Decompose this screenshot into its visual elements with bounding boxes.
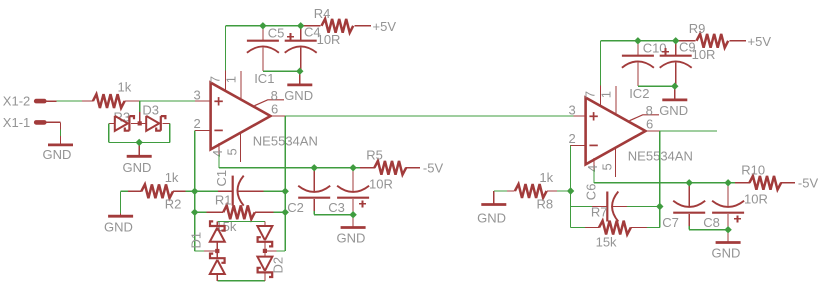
op-amp IC1 minus input mark: [214, 129, 222, 131]
junction V- C8: [724, 179, 731, 186]
polarity + (C3): [359, 201, 366, 208]
svg-text:X1-1: X1-1: [3, 115, 30, 130]
value 10R (R5): [369, 176, 393, 191]
svg-text:GND: GND: [104, 220, 133, 235]
capacitor C1: [233, 176, 244, 206]
resistor R5: [374, 161, 406, 175]
polarity + (C4): [287, 33, 294, 40]
svg-text:3: 3: [194, 88, 201, 103]
capacitor C6: [607, 192, 618, 222]
svg-text:1k: 1k: [165, 170, 179, 185]
svg-text:R4: R4: [314, 6, 331, 21]
label C4: [304, 25, 321, 40]
wire R9 lead left: [676, 40, 696, 42]
svg-text:5: 5: [225, 148, 240, 155]
svg-text:R7: R7: [591, 205, 608, 220]
wire D3 right lead: [162, 122, 169, 124]
label R10: [741, 162, 765, 177]
pin 2 lead IC2: [570, 144, 586, 146]
wire row B2 left seg: [571, 227, 600, 229]
junction row B left: [191, 209, 198, 216]
label C7: [662, 215, 679, 230]
label D2: [271, 257, 286, 274]
value 10R (R9): [692, 47, 716, 62]
value 10R (R10): [744, 191, 768, 206]
wire R5 lead right: [405, 167, 420, 169]
svg-text:D3: D3: [142, 102, 159, 117]
wire C2 top lead: [313, 168, 315, 191]
svg-text:C6: C6: [584, 184, 599, 201]
wire X1-1 to ground: [60, 122, 62, 144]
pin 5 lead IC1: [240, 132, 242, 162]
svg-text:C8: C8: [703, 215, 720, 230]
value 1k (R3): [118, 80, 132, 95]
resistor R2: [141, 184, 173, 198]
capacitor C9: [660, 56, 692, 68]
wire left wall (pin2 riser): [194, 130, 196, 251]
wire C4 bottom lead: [300, 48, 302, 72]
svg-text:R1: R1: [215, 193, 232, 208]
wire C2 bottom lead: [313, 199, 315, 215]
resistor R8: [515, 184, 547, 198]
wire right wall (output riser): [284, 116, 286, 251]
value 1k (R8): [539, 170, 553, 185]
svg-text:+5V: +5V: [373, 19, 397, 34]
pin 6 lead IC1: [271, 115, 286, 117]
wire C10 bottom lead: [637, 63, 639, 87]
wire D1 top lead: [216, 222, 218, 226]
junction rail C4: [297, 22, 304, 29]
junction row A2 right: [656, 203, 663, 210]
junction D3 middle: [138, 121, 142, 125]
wire row B right seg: [255, 211, 285, 213]
svg-text:C10: C10: [643, 40, 667, 55]
svg-text:-5V: -5V: [423, 160, 444, 175]
wire D2 mid lead: [264, 242, 266, 257]
svg-text:GND: GND: [477, 211, 506, 226]
pin number 2 IC1: [194, 116, 201, 131]
label R8: [537, 197, 554, 212]
pin number 1 IC1: [224, 76, 239, 83]
value NE5534AN IC1: [253, 134, 318, 149]
wire D2 bottom lead: [264, 273, 266, 281]
net name GND (pin 8 IC1): [284, 88, 313, 103]
wire +5V rail IC1: [263, 25, 301, 27]
capacitor C8: [712, 201, 744, 213]
junction D2 middle: [263, 249, 267, 253]
pin number 6 IC1: [271, 102, 278, 117]
ground GND (X1-1): [43, 145, 73, 162]
junction V- C3: [349, 164, 356, 171]
label C10: [643, 40, 667, 55]
label C5: [268, 25, 285, 40]
polarity + (C8): [734, 216, 741, 223]
label R5: [366, 147, 383, 162]
pin 8 lead IC2: [630, 115, 660, 121]
wire C9 top lead: [675, 41, 677, 56]
junction R8 wall: [567, 187, 574, 194]
svg-text:1k: 1k: [118, 80, 132, 95]
svg-text:3: 3: [569, 103, 576, 118]
svg-text:R10: R10: [741, 162, 765, 177]
wire row A2 left seg: [571, 206, 608, 208]
junction row A left: [191, 188, 198, 195]
value 10R (R4): [317, 32, 341, 47]
svg-text:IC2: IC2: [629, 86, 649, 101]
wire C4 top lead: [300, 26, 302, 41]
resistor R10: [749, 176, 781, 190]
label R9: [689, 21, 706, 36]
pin 4 lead IC1: [218, 143, 220, 155]
ground GND (bypass IC2): [711, 230, 740, 261]
net name GND (pin 8 IC2): [659, 103, 688, 118]
pin number 8 IC1: [271, 88, 278, 103]
connector pad X1-1: [36, 120, 60, 125]
pin number 3 IC2: [569, 103, 576, 118]
pin 7 lead IC2: [600, 86, 602, 106]
junction decoupling gnd IC1: [296, 68, 303, 75]
pin number 7 IC1: [208, 76, 223, 83]
svg-text:2: 2: [569, 131, 576, 146]
svg-text:+5V: +5V: [748, 34, 772, 49]
wire X1-2 to R3: [57, 100, 83, 102]
wire V- rail IC2: [689, 182, 735, 184]
label D3: [142, 102, 159, 117]
svg-text:-5V: -5V: [798, 175, 819, 190]
wire D2 top lead: [264, 222, 266, 227]
junction D3 gnd: [136, 139, 143, 146]
svg-text:2: 2: [194, 116, 201, 131]
wire D3 left lead: [109, 122, 115, 124]
svg-text:1: 1: [599, 91, 614, 98]
svg-text:1: 1: [224, 76, 239, 83]
wire R2 right: [173, 190, 195, 192]
label IC1: [254, 71, 274, 86]
wire +5V rail riser IC2: [601, 41, 638, 86]
pin number 1 IC2: [599, 91, 614, 98]
pin number 4 IC1: [210, 150, 225, 157]
capacitor C2: [298, 186, 330, 198]
svg-text:10R: 10R: [692, 47, 716, 62]
svg-text:15k: 15k: [596, 235, 617, 250]
svg-text:C3: C3: [328, 200, 345, 215]
pin number 7 IC2: [583, 91, 598, 98]
resistor R1: [223, 205, 255, 219]
junction rail C5: [259, 22, 266, 29]
label C9: [679, 40, 696, 55]
supply +5V label IC1: [373, 19, 397, 34]
wire D2 tap: [265, 250, 285, 252]
wire row A2 right seg: [612, 206, 660, 208]
svg-text:6: 6: [271, 102, 278, 117]
wire IC1 output to IC2 input: [285, 115, 573, 117]
wire C10 top lead: [637, 41, 639, 56]
svg-text:7: 7: [208, 76, 223, 83]
wire +5V rail riser IC1: [226, 26, 263, 71]
svg-text:6: 6: [646, 117, 653, 132]
wire C5 bottom lead: [262, 48, 264, 72]
svg-text:D2: D2: [271, 257, 286, 274]
label C6: [584, 184, 599, 201]
op-amp IC2 plus input mark: [589, 112, 597, 120]
resistor R4: [322, 19, 354, 33]
pin 4 lead IC2: [593, 158, 595, 170]
label R3: [114, 109, 131, 124]
label C2: [287, 200, 304, 215]
op-amp IC1 plus input mark: [214, 97, 222, 105]
value 15k (R7): [596, 235, 617, 250]
capacitor C10: [622, 56, 654, 68]
wire C7 bottom lead: [688, 214, 690, 230]
wire D3 mid lead: [131, 122, 146, 124]
wire C8 top lead: [727, 183, 729, 206]
svg-text:R2: R2: [165, 197, 182, 212]
label C8: [703, 215, 720, 230]
wire node stub to D3: [139, 101, 141, 123]
svg-text:4: 4: [210, 150, 225, 157]
pin 7 lead IC1: [225, 71, 227, 91]
junction D1 middle: [215, 249, 219, 253]
diode D1 zener lower: [210, 254, 225, 274]
diode D2 zener lower: [257, 257, 272, 277]
wire D1 mid lead: [216, 242, 218, 258]
wire C3 bottom lead: [352, 199, 354, 215]
pin 1 lead IC1: [240, 71, 242, 99]
wire bypass gnd row IC1: [314, 214, 353, 216]
wire R8 left: [494, 190, 515, 192]
pin 1 lead IC2: [615, 86, 617, 114]
resistor R3: [93, 94, 125, 108]
wire C9 bottom lead: [675, 63, 677, 87]
wire row B2 right seg: [631, 227, 660, 229]
svg-text:5: 5: [600, 163, 615, 170]
junction rail C9: [672, 37, 679, 44]
pin number 2 IC2: [569, 131, 576, 146]
wire bridge bottom tie: [217, 280, 265, 282]
svg-text:C7: C7: [662, 215, 679, 230]
svg-text:C1: C1: [214, 170, 229, 187]
wire R2 left: [121, 190, 142, 192]
svg-text:8: 8: [646, 103, 653, 118]
svg-text:10R: 10R: [317, 32, 341, 47]
wire D1 bottom lead: [216, 274, 218, 281]
svg-text:7: 7: [583, 91, 598, 98]
diode D2 zener upper: [257, 226, 272, 246]
value 1k (R2): [165, 170, 179, 185]
wire C7 top lead: [688, 183, 690, 206]
wire R3 to opamp pin 3: [140, 100, 195, 102]
label C1: [214, 170, 229, 187]
capacitor C3: [337, 186, 369, 198]
label C3: [328, 200, 345, 215]
junction V- C2: [311, 164, 318, 171]
wire R3 lead left: [82, 100, 93, 102]
svg-text:X1-2: X1-2: [3, 93, 30, 108]
ground GND (bypass IC1): [336, 215, 365, 246]
capacitor C4: [285, 41, 317, 53]
pin 6 lead IC2: [646, 130, 661, 132]
wire R5 lead left: [360, 167, 375, 169]
svg-text:NE5534AN: NE5534AN: [253, 134, 318, 149]
pin number 6 IC2: [646, 117, 653, 132]
supply -5V label IC1: [423, 160, 444, 175]
pin 5 lead IC2: [615, 147, 617, 177]
svg-text:GND: GND: [336, 230, 365, 245]
wire C3 top lead: [352, 168, 354, 191]
svg-text:D1: D1: [188, 232, 203, 249]
ground GND (rail IC1): [287, 71, 312, 85]
wire +5V rail IC2: [638, 40, 676, 42]
ground GND (R2): [104, 213, 133, 235]
diode D3 zener right: [146, 116, 165, 131]
op-amp IC1 body: [211, 83, 271, 150]
junction rail C10: [634, 37, 641, 44]
ground GND (rail IC2): [662, 86, 687, 100]
svg-text:GND: GND: [284, 88, 313, 103]
pin number 5 IC2: [600, 163, 615, 170]
wire decoupling gnd row IC2: [638, 85, 675, 87]
ground GND (D3): [123, 142, 152, 174]
svg-text:R8: R8: [537, 197, 554, 212]
label R2: [165, 197, 182, 212]
svg-text:1k: 1k: [539, 170, 553, 185]
wire pin4 riser IC2: [594, 170, 689, 183]
wire C8 bottom lead: [727, 214, 729, 230]
svg-text:8: 8: [271, 88, 278, 103]
wire R9 lead right: [729, 40, 746, 42]
wire R8 right: [547, 190, 571, 192]
wire R10 lead right: [780, 182, 795, 184]
capacitor C5: [247, 41, 279, 53]
resistor R7: [599, 221, 631, 235]
junction bypass gnd IC1: [349, 211, 356, 218]
wire V- rail IC1: [314, 167, 360, 169]
label D1: [188, 232, 203, 249]
label R1: [215, 193, 232, 208]
wire bridge top tie: [217, 221, 265, 223]
pin number 5 IC1: [225, 148, 240, 155]
value 15k (R1): [215, 219, 236, 234]
diode D3 zener left: [115, 116, 134, 131]
svg-text:GND: GND: [659, 103, 688, 118]
wire C5 top lead: [262, 26, 264, 41]
pin number 3 IC1: [194, 88, 201, 103]
svg-text:R5: R5: [366, 147, 383, 162]
label R4: [314, 6, 331, 21]
svg-text:4: 4: [585, 165, 600, 172]
wire D3 ground loop: [109, 123, 170, 142]
op-amp IC2 body: [586, 98, 646, 165]
connector pad X1-2: [36, 99, 56, 104]
label IC2: [629, 86, 649, 101]
junction row B right: [282, 209, 289, 216]
wire R2 gnd riser: [120, 191, 122, 213]
label R7: [591, 205, 608, 220]
label X1-2: [3, 93, 30, 108]
wire pin4 riser IC1: [219, 155, 314, 168]
label X1-1: [3, 115, 30, 130]
wire left wall IC2: [570, 145, 572, 227]
junction decoupling gnd IC2: [671, 83, 678, 90]
ground GND (R8): [477, 191, 506, 226]
pin 8 lead IC1: [255, 100, 285, 106]
junction bypass gnd IC2: [724, 226, 731, 233]
wire decoupling gnd row IC1: [263, 70, 300, 72]
pin number 8 IC2: [646, 103, 653, 118]
pin 3 lead IC2: [573, 115, 585, 117]
svg-text:C5: C5: [268, 25, 285, 40]
wire row B left seg: [195, 211, 223, 213]
value NE5534AN IC2: [628, 149, 693, 164]
polarity + (C9): [662, 48, 669, 55]
wire right wall IC2: [659, 131, 661, 228]
svg-text:GND: GND: [711, 245, 740, 260]
wire row A right seg: [237, 190, 285, 192]
svg-text:10R: 10R: [744, 191, 768, 206]
svg-text:C2: C2: [287, 200, 304, 215]
wire row A left seg: [195, 190, 233, 192]
wire R3 lead right: [125, 100, 140, 102]
svg-text:IC1: IC1: [254, 71, 274, 86]
svg-text:R9: R9: [689, 21, 706, 36]
pin 2 lead IC1: [195, 129, 211, 131]
op-amp IC2 minus input mark: [589, 144, 597, 146]
wire D1 tap: [195, 250, 218, 252]
wire bypass gnd row IC2: [689, 229, 728, 231]
supply -5V label IC2: [798, 175, 819, 190]
svg-text:10R: 10R: [369, 176, 393, 191]
junction V- C7: [686, 179, 693, 186]
supply +5V label IC2: [748, 34, 772, 49]
pin number 4 IC2: [585, 165, 600, 172]
capacitor C7: [673, 201, 705, 213]
wire R4 lead right: [354, 25, 371, 27]
pin 3 lead IC1: [195, 100, 211, 102]
resistor R9: [697, 34, 729, 48]
wire IC2 output stub: [660, 130, 717, 132]
diode D1 zener upper: [210, 221, 225, 241]
wire R4 lead left: [301, 25, 321, 27]
svg-text:GND: GND: [43, 147, 72, 162]
svg-text:GND: GND: [123, 160, 152, 175]
junction row A right: [282, 188, 289, 195]
wire R10 lead left: [735, 182, 750, 184]
